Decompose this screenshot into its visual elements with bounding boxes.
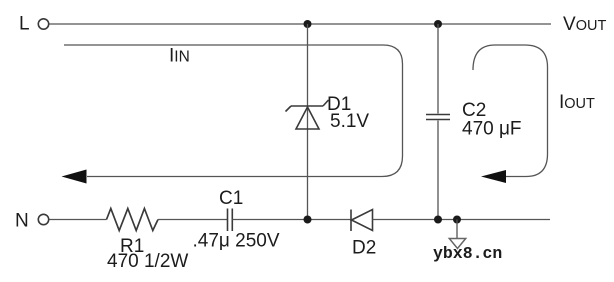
capacitor C1 plates [227,209,229,232]
wire C1 to D2 [232,219,351,221]
svg-text:470 1/2W: 470 1/2W [107,251,188,272]
wire top rail L to VOUT [49,23,551,25]
wire IIN current loop with arrowhead [64,45,403,177]
wire D2 to right end [373,219,551,221]
node junction dot bottom of D1 [304,216,312,224]
svg-text:.47μ 250V: .47μ 250V [193,231,280,252]
svg-text:ybx8.cn: ybx8.cn [433,244,502,263]
svg-text:N: N [15,211,29,232]
diode D1 zener 5.1V [286,100,329,129]
node N (terminal circle) [38,214,48,224]
svg-text:L: L [19,14,30,35]
wire ground stem [456,220,458,239]
node junction dot top of C2 [434,20,442,28]
capacitor C2 branch wires [437,24,439,114]
wire N to R1 [49,219,106,221]
svg-text:IIN: IIN [169,46,190,67]
node junction dot bottom of C2 [434,216,442,224]
ground symbol [449,239,465,249]
wire D1 branch vertical [307,24,309,220]
node junction dot top of D1 [304,20,312,28]
svg-text:IOUT: IOUT [559,92,595,113]
svg-text:VOUT: VOUT [563,14,606,35]
resistor R1 zigzag [107,209,159,231]
svg-text:D2: D2 [352,238,376,259]
node junction dot at ground tap [453,216,461,224]
svg-text:5.1V: 5.1V [330,111,369,132]
diode D2 [351,210,373,232]
wire IOUT current loop with arrowhead [473,45,548,177]
svg-text:470 μF: 470 μF [462,119,522,140]
wire R1 to C1 [158,219,228,221]
svg-text:C1: C1 [219,188,243,209]
node L (terminal circle) [38,19,48,29]
capacitor C2 plates [426,114,450,116]
